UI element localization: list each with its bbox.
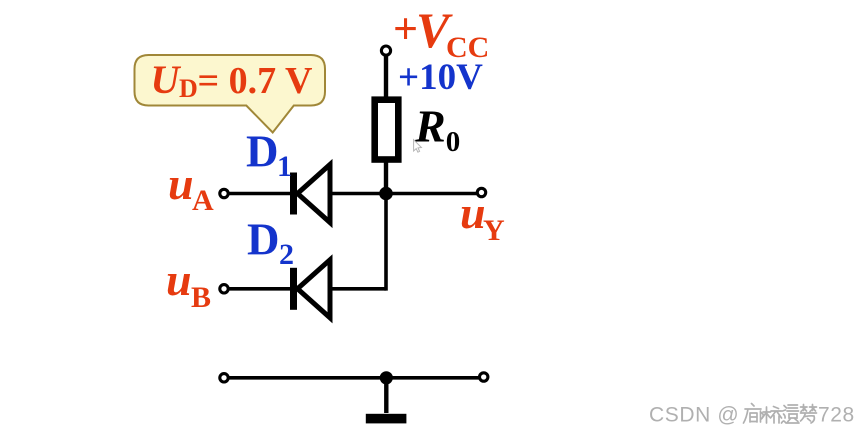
input terminal uB <box>220 285 228 293</box>
ground stem wire <box>384 378 388 413</box>
diode D2 <box>290 260 330 318</box>
watermark hanzi lang <box>744 404 764 424</box>
svg-text:U: U <box>151 57 182 102</box>
input terminal uA <box>220 189 228 197</box>
watermark hanzi yi <box>782 405 800 423</box>
ground rail junction dot <box>380 371 393 384</box>
watermark hanzi qiao <box>763 407 782 424</box>
ground rail wire <box>229 376 479 380</box>
svg-text:CSDN @: CSDN @ <box>649 404 739 427</box>
svg-text:B: B <box>191 281 211 314</box>
wire uA to node <box>229 192 386 196</box>
svg-text:728: 728 <box>818 404 854 427</box>
ground symbol bar <box>366 414 407 424</box>
svg-text:A: A <box>192 184 214 217</box>
output terminal uY <box>477 188 485 196</box>
svg-text:+10V: +10V <box>398 57 483 98</box>
wire D2 corner up to node <box>384 194 388 291</box>
power terminal circle +VCC <box>381 46 390 55</box>
diode D1 <box>290 165 330 223</box>
resistor R0 <box>375 100 399 160</box>
svg-text:+: + <box>393 5 418 54</box>
mouse cursor <box>414 140 422 153</box>
node junction dot <box>379 187 393 201</box>
svg-text:1: 1 <box>277 150 292 183</box>
callout bubble UD = 0.7 V <box>135 55 326 133</box>
watermark CSDN <box>649 404 854 427</box>
svg-text:D: D <box>246 127 279 177</box>
wire resistor R0 to node <box>384 160 388 194</box>
svg-text:u: u <box>166 254 192 305</box>
svg-text:u: u <box>460 187 486 238</box>
svg-text:u: u <box>168 158 194 209</box>
svg-text:= 0.7 V: = 0.7 V <box>198 60 313 102</box>
wire uB horizontal <box>229 287 386 291</box>
svg-text:Y: Y <box>483 214 505 247</box>
svg-text:2: 2 <box>279 238 294 271</box>
wire node to output uY <box>386 192 478 196</box>
ground rail right terminal <box>480 373 488 381</box>
svg-text:D: D <box>179 74 198 103</box>
wire VCC terminal to resistor R0 <box>384 53 388 99</box>
watermark hanzi meng <box>801 405 817 424</box>
ground rail left terminal <box>220 374 228 382</box>
svg-text:D: D <box>247 215 280 265</box>
svg-text:R0: R0 <box>414 101 460 159</box>
